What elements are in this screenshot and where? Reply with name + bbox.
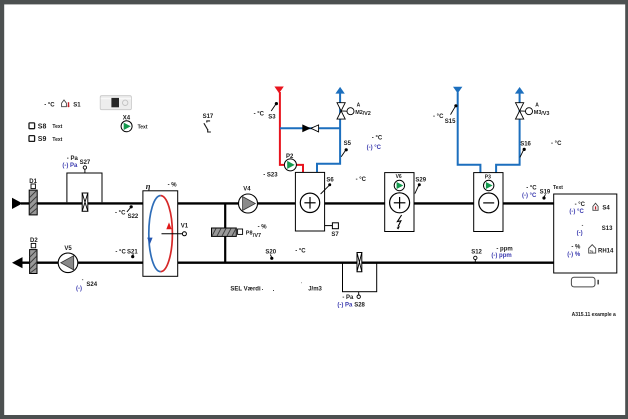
svg-text:S24: S24 [86,282,97,288]
valve M2/V2 [337,103,371,120]
svg-text:- °C: - °C [356,177,367,183]
svg-text:(-): (-) [76,286,82,292]
fan V4 [239,186,258,213]
pipe hot water supply red [274,87,303,174]
svg-text:- %: - % [258,225,268,231]
svg-text:(-): (-) [577,231,583,237]
heat exchanger box [143,181,178,276]
svg-text:(-) °C: (-) °C [367,145,382,151]
svg-text:SEL Værdi: SEL Værdi [230,287,261,293]
svg-text:/V3: /V3 [541,111,549,117]
svg-text:- °C: - °C [254,112,265,118]
svg-text:Text: Text [52,124,62,130]
text temp after S5 [367,135,383,150]
pipe chilled water return blue [496,87,524,173]
frame border top [0,0,628,4]
checkbox S9 [29,136,63,144]
pipe crossover blue [280,127,340,129]
svg-text:S9: S9 [38,136,47,143]
wire vertical connector heater [224,203,226,262]
sensor S15 [433,104,458,125]
svg-text:- ppm: - ppm [496,246,512,252]
svg-text:(-) Pa: (-) Pa [62,163,78,169]
supply duct arrow [12,198,23,209]
svg-text:η: η [146,181,151,191]
svg-text:V1: V1 [181,224,189,230]
svg-text:S16: S16 [520,142,531,148]
frame border bottom [0,415,628,419]
svg-text:S3: S3 [268,114,276,120]
heater P8/V7 [212,225,268,239]
svg-text:- °C: - °C [526,186,537,192]
svg-text:P3: P3 [485,174,491,180]
svg-text:(-) %: (-) % [567,252,581,258]
pump P2 [284,154,296,171]
sensor S6 [321,177,335,194]
svg-text:- °C: - °C [115,249,126,255]
svg-text:S28: S28 [354,302,365,308]
indicator X4 [121,115,148,131]
svg-text:S5: S5 [344,141,352,147]
svg-text:(-) ppm: (-) ppm [491,253,511,259]
svg-text:A315.11 example a: A315.11 example a [572,312,616,318]
svg-text:S20: S20 [265,249,276,255]
svg-text:S7: S7 [331,232,339,238]
pipe chilled water supply blue [453,87,480,173]
svg-text:S27: S27 [80,160,91,166]
svg-text:D2: D2 [30,238,38,244]
svg-text:S13: S13 [602,226,613,232]
svg-text:V6: V6 [396,174,402,180]
svg-text:S22: S22 [128,214,139,220]
svg-text:(-) °C: (-) °C [569,209,584,215]
room box [554,194,617,273]
svg-text:/V7: /V7 [253,233,261,239]
damper D2 [30,238,39,273]
svg-text:- Pa: - Pa [342,295,354,301]
svg-text:Text: Text [52,137,62,143]
frame border left [0,0,4,419]
sensor S5 [341,141,351,157]
house icon S4 [593,203,598,210]
sensor S12 [471,246,513,261]
wire extract duct bottom [21,262,554,264]
svg-text:D1: D1 [29,179,37,185]
svg-text:(-) Pa: (-) Pa [337,303,353,309]
svg-text:- Pa: - Pa [67,156,79,162]
svg-text:- %: - % [168,183,178,189]
sensor S1 row [44,100,81,108]
pipe hot water return blue [317,87,345,173]
svg-text:V5: V5 [64,246,72,252]
heating coil box [295,172,324,231]
sensor S21 [115,249,138,258]
sensor S20 [265,248,306,260]
room controller I [571,277,598,287]
filter S27 assembly [62,156,102,211]
fan V5 [58,246,78,272]
svg-text:S6: S6 [326,177,334,183]
filter S28 assembly [337,253,376,309]
valve M3/V3 [516,103,550,120]
svg-text:A: A [357,103,361,109]
extract duct arrow [12,257,23,268]
svg-text:V4: V4 [243,186,251,192]
svg-text:- °C: - °C [433,114,444,120]
svg-text:S8: S8 [38,123,47,130]
sensor S22 [115,205,139,220]
svg-text:J/m3: J/m3 [308,287,322,293]
svg-text:- °C: - °C [115,211,126,217]
svg-text:S4: S4 [602,206,610,212]
text SEL Vaerdi [230,283,322,293]
sensor S29 [415,177,427,193]
svg-text:P2: P2 [286,154,294,160]
sensor S16 [520,142,532,158]
switch widget [100,96,131,110]
electric heater V6 box [385,173,414,232]
svg-text:- °C: - °C [372,135,383,141]
svg-text:S17: S17 [203,114,214,120]
sensor S19 [522,185,563,199]
svg-text:RH14: RH14 [598,249,614,255]
svg-text:- S23: - S23 [263,172,278,178]
sensor S3 [254,102,278,120]
frame border right [625,0,628,419]
svg-text:/V2: /V2 [363,111,371,117]
sensor S7 [325,223,340,238]
svg-text:- °C: - °C [551,141,562,147]
svg-text:Text: Text [138,124,148,130]
house icon RH14 [589,245,596,254]
svg-text:- °C: - °C [295,248,306,254]
svg-text:P8: P8 [246,231,253,237]
sensor S24 [76,277,98,292]
check valve [302,124,318,132]
svg-text:S29: S29 [415,177,426,183]
damper D1 [29,179,37,215]
svg-text:- %: - % [571,245,581,251]
svg-text:S12: S12 [471,249,482,255]
cooling coil P3 box [474,173,503,232]
svg-text:%: % [590,248,594,253]
svg-text:A: A [535,103,539,109]
svg-text:S1: S1 [73,102,81,108]
svg-text:(-) °C: (-) °C [522,193,537,199]
svg-text:- °C: - °C [44,102,55,108]
switch S17 [203,114,214,132]
damper V1 [162,224,189,236]
svg-text:S15: S15 [445,119,456,125]
svg-text:Text: Text [553,185,563,191]
checkbox S8 [29,123,63,130]
wire supply duct top [21,202,554,204]
svg-text:- °C: - °C [575,202,586,208]
